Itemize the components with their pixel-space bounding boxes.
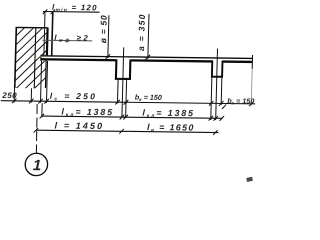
svg-text:l = 1450: l = 1450 <box>54 120 104 131</box>
svg-text:1: 1 <box>33 157 42 174</box>
svg-text:bк = 150: bк = 150 <box>135 93 162 104</box>
svg-text:250: 250 <box>1 91 17 100</box>
svg-text:а = 350: а = 350 <box>136 13 147 51</box>
svg-text:bк = 150: bк = 150 <box>227 96 254 107</box>
svg-text:в = 50: в = 50 <box>98 15 109 44</box>
